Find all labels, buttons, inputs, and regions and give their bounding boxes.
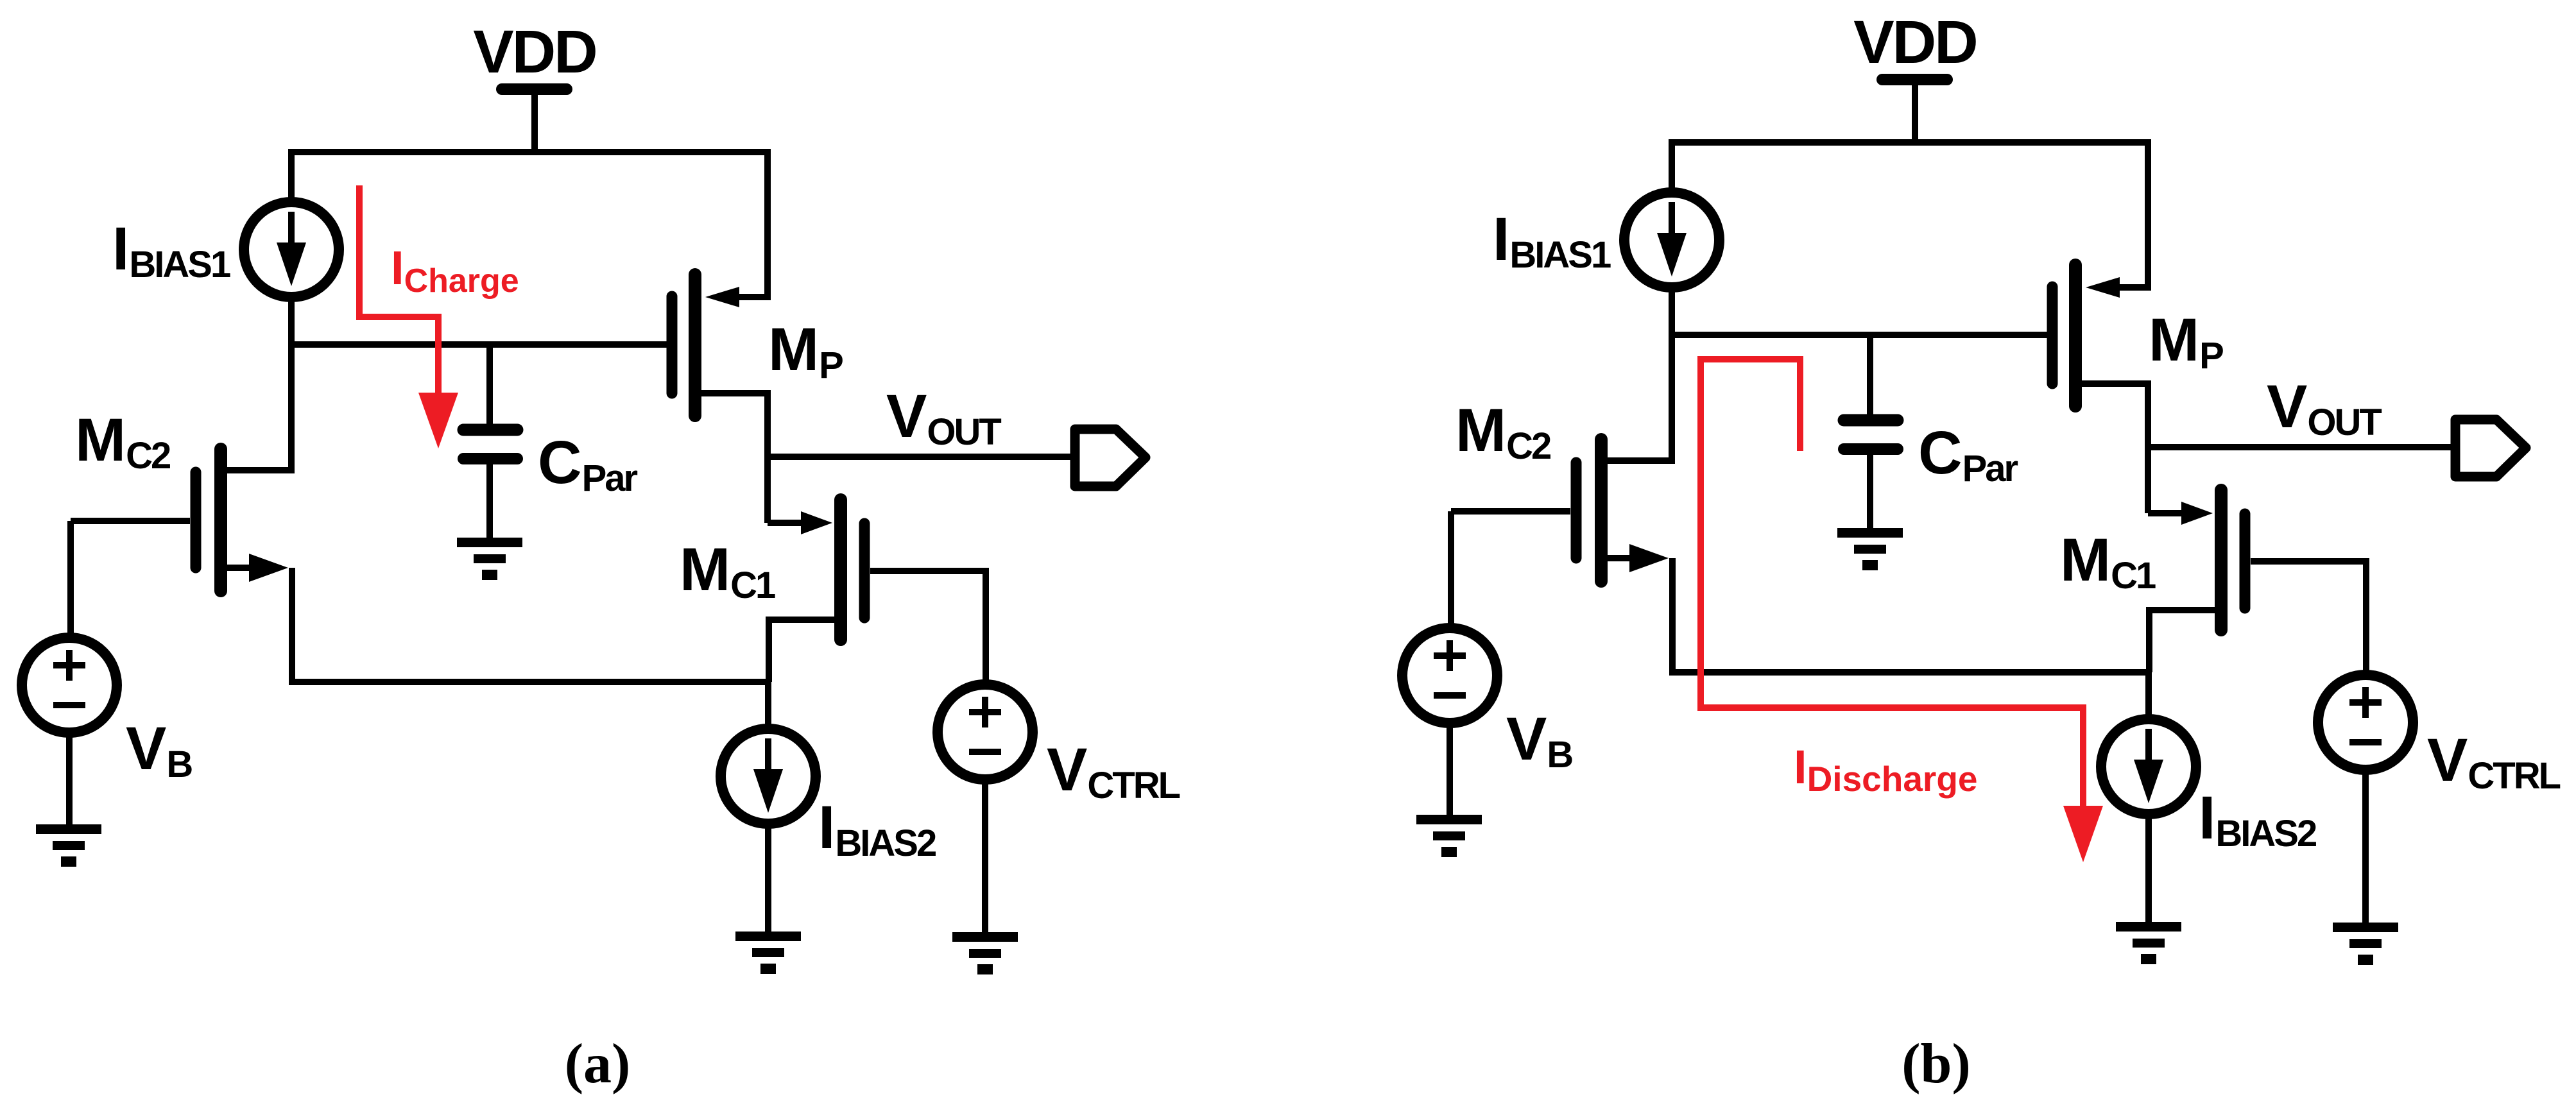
ground VCTRL (a) [952, 932, 1018, 942]
svg-text:VCTRL: VCTRL [2427, 726, 2561, 797]
transistor MP (a) [667, 296, 678, 393]
output pin symbol (b) [2455, 420, 2526, 477]
transistor MC2 (a) [191, 472, 202, 568]
wire top rail VDD net (b) [1672, 142, 2148, 291]
wire IBIAS2 to ground (a) [765, 824, 771, 935]
wire gate rail to MP (b) [1672, 332, 2048, 338]
capacitor CPar (a) [486, 345, 493, 425]
discharge current path (red, b) [1701, 359, 2083, 810]
transistor MC1 (b) [2148, 510, 2183, 516]
svg-text:VOUT: VOUT [2267, 373, 2382, 443]
transistor MP (b) [2047, 287, 2058, 384]
wire VOUT rail (a) [768, 454, 1070, 460]
voltage source VB (a) [22, 638, 117, 733]
ground VB (b) [1416, 815, 1482, 824]
voltage source VCTRL (b) [2318, 675, 2413, 770]
voltage source VCTRL (a) [938, 685, 1033, 779]
wire VB to ground (b) [1447, 723, 1453, 818]
ground VCTRL (b) [2333, 923, 2398, 932]
wire MC2 gate to VB (a) [67, 521, 74, 638]
svg-text:(a): (a) [565, 1033, 631, 1095]
wire IBIAS1 drain to MC2 node (a) [288, 299, 295, 473]
svg-text:MC2: MC2 [1455, 396, 1550, 467]
wire VDD stem (a) [531, 95, 538, 152]
ground VB (a) [36, 824, 101, 834]
svg-text:VCTRL: VCTRL [1047, 736, 1180, 806]
wire IBIAS2 to ground (b) [2145, 814, 2152, 925]
svg-text:(b): (b) [1902, 1033, 1971, 1095]
wire MP drain to VOUT node (b) [2145, 380, 2151, 513]
svg-text:CPar: CPar [1918, 419, 2018, 489]
wire VB to ground (a) [66, 733, 73, 828]
charge current path (red, a) [359, 185, 438, 396]
wire VCTRL to ground (b) [2362, 770, 2369, 926]
svg-text:IBIAS2: IBIAS2 [818, 794, 936, 864]
svg-text:MP: MP [2149, 306, 2223, 377]
wire MC2 gate to VB (b) [1448, 511, 1454, 628]
output pin symbol (a) [1075, 429, 1146, 486]
VDD supply bar (a) [502, 83, 567, 95]
wire MC1 source to IBIAS2 (a) [765, 682, 771, 729]
svg-text:VDD: VDD [1853, 8, 1977, 76]
capacitor CPar (b) [1867, 335, 1873, 415]
transistor MC1 (a) [768, 520, 802, 526]
VDD supply bar (b) [1882, 74, 1947, 85]
current source IBIAS2 (a) [721, 729, 816, 824]
current source IBIAS2 (b) [2101, 719, 2196, 814]
svg-text:MC2: MC2 [75, 406, 170, 477]
svg-text:IDischarge: IDischarge [1794, 740, 1978, 799]
current source IBIAS1 (b) [1624, 192, 1719, 287]
wire VDD stem (b) [1912, 85, 1918, 142]
svg-text:VOUT: VOUT [886, 382, 1001, 453]
wire top rail VDD net (a) [291, 152, 768, 300]
svg-text:MC1: MC1 [2060, 526, 2156, 597]
svg-text:MC1: MC1 [680, 536, 775, 606]
voltage source VB (b) [1402, 628, 1497, 723]
transistor MC2 (b) [1571, 463, 1582, 558]
svg-text:VB: VB [1506, 705, 1572, 776]
ground IBIAS2 (a) [735, 932, 801, 941]
wire bottom rail (b) [1669, 669, 2149, 676]
svg-text:ICharge: ICharge [391, 241, 519, 300]
svg-text:VDD: VDD [473, 18, 596, 86]
svg-text:IBIAS1: IBIAS1 [1493, 205, 1611, 276]
svg-text:IBIAS1: IBIAS1 [112, 215, 230, 285]
current source IBIAS1 (a) [244, 202, 339, 297]
wire VCTRL to ground (a) [982, 779, 988, 935]
wire bottom rail (a) [289, 679, 768, 685]
svg-text:CPar: CPar [538, 429, 638, 499]
wire IBIAS1 drain to MC2 node (b) [1669, 289, 1675, 464]
svg-text:MP: MP [768, 316, 843, 386]
svg-text:VB: VB [126, 715, 192, 785]
ground IBIAS2 (b) [2116, 922, 2181, 932]
wire VOUT rail (b) [2148, 444, 2451, 450]
wire gate rail to MP (a) [291, 341, 668, 348]
ground CPar (b) [1837, 528, 1903, 538]
ground CPar (a) [457, 538, 522, 547]
wire MP drain to VOUT node (a) [764, 390, 771, 523]
svg-text:IBIAS2: IBIAS2 [2199, 784, 2316, 855]
wire MC1 source to IBIAS2 (b) [2145, 672, 2152, 719]
